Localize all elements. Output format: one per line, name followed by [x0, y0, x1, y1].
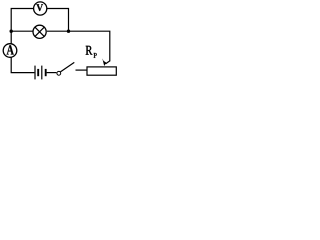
lamp X1 — [33, 25, 46, 38]
wire ammeter to battery — [11, 57, 34, 72]
battery G — [35, 66, 46, 80]
switch S — [57, 62, 74, 75]
node junction right — [67, 30, 70, 33]
rheostat RP body — [87, 67, 116, 75]
wire switch to rheostat — [76, 69, 88, 71]
ammeter A — [3, 44, 17, 58]
wire top-left + left vertical to ammeter — [11, 9, 33, 44]
wire lamp branch left — [11, 30, 33, 32]
wire right side to rheostat wiper — [69, 31, 110, 61]
voltmeter V — [34, 2, 47, 15]
label RP — [86, 46, 97, 58]
node junction left — [10, 30, 13, 33]
wiper arrow — [102, 58, 110, 66]
wire lamp to junction — [47, 30, 69, 32]
wire top-right + drop to junction — [47, 9, 69, 32]
wire battery to switch — [47, 72, 57, 74]
